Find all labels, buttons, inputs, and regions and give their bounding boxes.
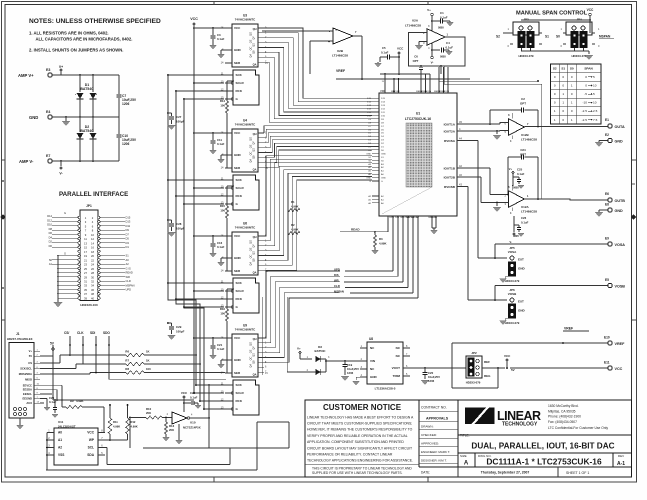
net D/S (334, 216, 398, 277)
svg-text:0.1uF: 0.1uF (440, 16, 448, 20)
svg-text:39: 39 (84, 296, 87, 300)
shift register U6 74VHC595MTC (221, 222, 269, 314)
svg-text:APPLICATION. COMPONENT SUBSTIT: APPLICATION. COMPONENT SUBSTITUTION AND … (307, 440, 404, 444)
eeprom U11 24LC025-I/ST (47, 420, 105, 465)
date row (421, 467, 589, 477)
svg-text:E1: E1 (605, 118, 609, 122)
svg-text:TECHNOLOGY APPLICATIONS ENGINE: TECHNOLOGY APPLICATIONS ENGINEERING FOR … (307, 459, 413, 463)
VCC supply top (190, 17, 198, 28)
svg-text:VIN: VIN (370, 359, 375, 363)
svg-text:LTC2753CUK-16: LTC2753CUK-16 (405, 117, 431, 121)
svg-text:OUTB: OUTB (615, 199, 626, 203)
svg-text:A0: A0 (58, 431, 62, 435)
svg-text:EEVCC: EEVCC (23, 383, 32, 387)
svg-text:C25: C25 (517, 168, 523, 172)
svg-text:JP1: JP1 (86, 204, 92, 208)
svg-text:0.1uF: 0.1uF (217, 245, 225, 249)
svg-text:C24: C24 (520, 148, 526, 152)
svg-text:13: 13 (84, 241, 87, 245)
svg-text:29: 29 (84, 275, 87, 279)
svg-text:CONTRACT NO.: CONTRACT NO. (421, 406, 447, 410)
net MSPAN (334, 216, 413, 294)
svg-text:0: 0 (562, 75, 564, 79)
capacitor C10 (116, 117, 137, 161)
svg-text:E5: E5 (605, 278, 609, 282)
op-amp U12B LT1469CS8 (505, 113, 538, 143)
svg-text:V-: V- (510, 240, 513, 244)
svg-text:SER: SER (234, 269, 241, 273)
svg-text:0.1uF: 0.1uF (517, 172, 525, 176)
svg-text:33: 33 (84, 284, 87, 288)
wire RCK bus (176, 91, 226, 401)
svg-text:20K: 20K (169, 428, 174, 432)
svg-text:1206: 1206 (347, 371, 354, 375)
svg-text:11: 11 (84, 237, 87, 241)
svg-text:GND: GND (370, 375, 378, 379)
resistor R9 4.99K (61, 399, 104, 433)
svg-text:1. ALL RESISTORS ARE IN OHMS,: 1. ALL RESISTORS ARE IN OHMS, 0402. (29, 31, 109, 36)
svg-text:AMP V+: AMP V+ (18, 73, 34, 78)
svg-text:0.1uF: 0.1uF (521, 221, 529, 225)
svg-text:Milpitas, CA 95035: Milpitas, CA 95035 (548, 409, 576, 413)
svg-text:QB: QB (253, 360, 256, 364)
svg-text:D3: D3 (126, 241, 130, 245)
svg-text:32: 32 (91, 280, 94, 284)
op-amp U2B LT1469CS8 (262, 28, 362, 74)
resistor R7 1K (125, 359, 200, 366)
svg-text:C6: C6 (414, 55, 418, 59)
svg-text:1: 1 (571, 118, 573, 122)
svg-text:VCC: VCC (397, 47, 404, 51)
capacitor C16 0.1uF (194, 235, 225, 257)
svg-text:D10: D10 (47, 223, 52, 227)
svg-text:VERIFY PROPER AND RELIABLE OPE: VERIFY PROPER AND RELIABLE OPERATION IN … (307, 434, 408, 438)
svg-text:D14: D14 (47, 214, 52, 218)
svg-text:VOSA: VOSA (508, 250, 517, 254)
svg-text:VREF: VREF (615, 342, 626, 346)
svg-text:R8: R8 (125, 367, 129, 371)
svg-text:EESDA: EESDA (23, 388, 32, 392)
voltage reference U8 LT1236ACS8-5 (360, 337, 410, 391)
svg-text:0.1uF: 0.1uF (217, 37, 225, 41)
svg-text:19: 19 (84, 254, 87, 258)
svg-text:V+: V+ (29, 349, 33, 353)
capacitor C26 0.1uF (510, 216, 529, 244)
svg-text:4.99K: 4.99K (379, 242, 386, 246)
svg-text:GND: GND (615, 209, 624, 213)
svg-text:0.1uF: 0.1uF (381, 51, 389, 55)
svg-text:VCC: VCC (181, 391, 188, 395)
capacitor C22 0.1uF (184, 391, 201, 409)
svg-text:S2: S2 (553, 66, 557, 70)
wire (340, 216, 418, 298)
svg-text:QA: QA (250, 54, 253, 58)
svg-text:D2: D2 (49, 240, 53, 244)
svg-text:1206: 1206 (122, 102, 130, 106)
svg-text:UPD: UPD (334, 268, 340, 272)
terminal E7 AMP V- (19, 139, 119, 164)
svg-text:QC: QC (250, 151, 253, 155)
svg-text:100: 100 (220, 209, 225, 213)
svg-text:READ: READ (351, 228, 360, 232)
svg-text:SCLR: SCLR (236, 81, 245, 85)
svg-text:VCC: VCC (615, 367, 623, 371)
capacitor C3 0.1uF (194, 27, 225, 49)
svg-text:D1: D1 (126, 245, 130, 249)
V+ supply symbol (297, 347, 312, 360)
svg-text:0: 0 (554, 92, 556, 96)
wire RCK stub (175, 90, 225, 92)
svg-text:0805: 0805 (438, 26, 444, 30)
svg-text:A2: A2 (58, 446, 62, 450)
svg-text:SIZE: SIZE (460, 454, 467, 458)
svg-text:A-1: A-1 (617, 461, 625, 467)
svg-text:SCK: SCK (236, 178, 243, 182)
svg-text:VCC: VCC (190, 17, 198, 21)
svg-text:QF: QF (253, 346, 256, 350)
svg-text:A: A (464, 461, 469, 467)
ground (415, 42, 423, 50)
shift register U3 74VHC595MTC (221, 14, 269, 106)
svg-text:C26: C26 (521, 216, 527, 220)
svg-text:HOWEVER, IT REMAINS THE CUSTOM: HOWEVER, IT REMAINS THE CUSTOMER'S RESPO… (307, 428, 413, 432)
svg-text:QG: QG (250, 342, 253, 346)
svg-text:D/S: D/S (334, 273, 339, 277)
resistor R2 4.99K (288, 223, 300, 235)
svg-text:0.1uF: 0.1uF (190, 396, 198, 400)
svg-text:22: 22 (91, 258, 94, 262)
svg-text:4.99K: 4.99K (131, 425, 138, 429)
svg-text:D8: D8 (49, 227, 53, 231)
size dwg rev row (460, 454, 625, 467)
svg-text:GND: GND (234, 153, 242, 157)
jumper JP5 VOSA HD1X3-079 (499, 246, 525, 283)
svg-text:QB: QB (253, 258, 256, 262)
svg-text:OPT: OPT (520, 102, 526, 106)
capacitor C1 0.1uF (432, 11, 454, 30)
V- supply symbol (59, 161, 62, 176)
svg-text:0.1uF: 0.1uF (217, 142, 225, 146)
svg-text:0: 0 (562, 118, 564, 122)
svg-text:QG: QG (250, 240, 253, 244)
ground (493, 135, 501, 140)
svg-text:38: 38 (91, 292, 94, 296)
svg-text:QA: QA (250, 159, 253, 163)
svg-text:VCC: VCC (234, 336, 241, 340)
svg-text:QC: QC (250, 46, 253, 50)
svg-text:4.99K: 4.99K (291, 227, 298, 231)
svg-text:S0: S0 (570, 66, 574, 70)
terminal E11 VCC (510, 361, 623, 372)
wire staircase nets (46, 418, 289, 471)
svg-text:SER: SER (234, 61, 241, 65)
wire U11 ground pins (46, 433, 48, 471)
wire G bus (184, 99, 226, 409)
resistor R12 4.99K (110, 404, 138, 440)
svg-text:VOSA: VOSA (615, 243, 626, 247)
svg-text:1630 McCarthy Blvd.: 1630 McCarthy Blvd. (548, 404, 579, 408)
svg-text:U12A: U12A (521, 205, 530, 209)
svg-text:0805: 0805 (513, 186, 519, 190)
svg-text:NC7SZ14P5X: NC7SZ14P5X (183, 426, 201, 430)
svg-text:0.1uF: 0.1uF (217, 347, 225, 351)
svg-text:MSPAN: MSPAN (126, 283, 135, 287)
svg-text:100: 100 (146, 367, 151, 371)
svg-text:WP: WP (89, 438, 95, 442)
svg-text:QG: QG (250, 32, 253, 36)
svg-text:DESIGNER: KIM T.: DESIGNER: KIM T. (421, 458, 447, 462)
svg-text:E6: E6 (605, 192, 609, 196)
svg-text:0: 0 (562, 109, 564, 113)
capacitor C11 0.1uF (194, 132, 225, 154)
svg-text:*: * (96, 93, 97, 97)
wire data bus U3 to U1 (264, 28, 372, 122)
svg-text:QH: QH (253, 235, 257, 239)
svg-text:74VHC595MTC: 74VHC595MTC (235, 18, 256, 22)
svg-text:1: 1 (571, 101, 573, 105)
svg-text:0: 0 (585, 75, 587, 79)
wire SCK bus (168, 75, 226, 385)
svg-text:0: 0 (571, 75, 573, 79)
title block frame (305, 400, 632, 477)
svg-text:D0: D0 (49, 244, 53, 248)
svg-text:GND: GND (381, 178, 386, 180)
svg-text:10: 10 (593, 84, 597, 88)
svg-text:QF: QF (253, 36, 256, 40)
svg-text:25: 25 (84, 267, 87, 271)
svg-text:D/S: D/S (395, 217, 399, 219)
svg-text:QB: QB (253, 155, 256, 159)
terminal E10 VREF (604, 336, 625, 347)
svg-text:E10: E10 (604, 336, 610, 340)
svg-text:SDI: SDI (90, 331, 95, 335)
svg-text:TRIM: TRIM (393, 374, 401, 378)
svg-text:RVOSA: RVOSA (444, 139, 456, 143)
ground (175, 424, 182, 444)
svg-text:U11: U11 (58, 420, 64, 424)
wire SCLR stub (193, 187, 224, 189)
feedback wire U2A (409, 33, 466, 67)
VCC net at U10 (181, 391, 188, 412)
capacitor C5 0.1uF (374, 46, 399, 67)
op-amp U2A LT1469CS8 (405, 19, 465, 46)
capacitor C27 100pF (167, 112, 184, 129)
svg-text:GND: GND (29, 115, 38, 120)
svg-text:QA: QA (253, 271, 257, 275)
svg-text:E11: E11 (604, 361, 610, 365)
svg-text:74VHC595MTC: 74VHC595MTC (235, 226, 256, 230)
svg-text:S0: S0 (556, 35, 560, 39)
svg-text:21: 21 (84, 258, 87, 262)
svg-text:E3: E3 (46, 68, 50, 72)
svg-text:D7: D7 (126, 232, 130, 236)
svg-text:RVOSB: RVOSB (444, 185, 456, 189)
wire pullup rail (53, 345, 194, 400)
svg-text:G /S: G /S (126, 266, 131, 270)
svg-text:REF: REF (484, 360, 490, 364)
wire bus riser (261, 297, 263, 375)
wire (208, 384, 210, 418)
svg-text:SCLR: SCLR (236, 391, 245, 395)
svg-text:RFCB: RFCB (443, 91, 449, 93)
svg-text:C29: C29 (176, 325, 182, 329)
svg-text:QD: QD (253, 251, 256, 255)
svg-text:1K: 1K (146, 350, 150, 354)
svg-text:QD: QD (253, 43, 256, 47)
svg-text:U8: U8 (369, 337, 373, 341)
capacitor C24 OPT (508, 148, 538, 199)
svg-text:0: 0 (571, 92, 573, 96)
wire data bus U4 to U1 (264, 126, 372, 167)
svg-text:A1: A1 (49, 262, 53, 266)
U1 right pins IOUT1A IOUT2A RVOSA IOUT1B IOUT2B RVOSB (444, 120, 464, 189)
svg-text:PARALLEL INTERFACE: PARALLEL INTERFACE (59, 191, 128, 198)
svg-text:34: 34 (91, 284, 94, 288)
svg-text:CIRCUIT BOARD LAYOUT MAY SIGNI: CIRCUIT BOARD LAYOUT MAY SIGNIFICANTLY A… (307, 446, 413, 450)
svg-text:QA: QA (253, 63, 257, 67)
svg-text:V+: V+ (297, 347, 301, 351)
svg-text:SER: SER (234, 166, 241, 170)
DAC U1 LTC2753CUK-16 (366, 93, 457, 216)
connector J1 HD2X7-079-MOLEX (7, 332, 40, 429)
svg-text:VOSB: VOSB (615, 285, 626, 289)
svg-text:SER: SER (234, 371, 241, 375)
svg-text:100pF: 100pF (176, 120, 185, 124)
svg-text:U2B: U2B (337, 49, 344, 53)
op-amp U12A LT1469CS8 (505, 185, 538, 215)
svg-text:CUSTOMER NOTICE: CUSTOMER NOTICE (323, 403, 402, 412)
net VREF to E10 (452, 327, 608, 389)
svg-text:1206: 1206 (122, 142, 130, 146)
svg-text:CLK: CLK (77, 331, 84, 335)
svg-text:GND: GND (366, 153, 371, 155)
svg-text:5V: 5V (29, 354, 32, 358)
net UPD (334, 216, 393, 272)
svg-text:LDAC: LDAC (413, 216, 419, 219)
svg-text:5V: 5V (511, 368, 515, 372)
svg-text:26: 26 (91, 267, 94, 271)
svg-text:TITLE:: TITLE: (460, 434, 470, 438)
svg-text:WR: WR (334, 279, 339, 283)
svg-text:JP3: JP3 (523, 18, 529, 22)
svg-text:C2: C2 (521, 97, 525, 101)
svg-text:QA: QA (253, 373, 257, 377)
capacitor C4 0.1uF (432, 41, 453, 59)
svg-text:QE: QE (250, 349, 253, 353)
svg-text:20: 20 (91, 254, 94, 258)
svg-text:VOUT: VOUT (392, 366, 401, 370)
svg-text:HD2X3-079: HD2X3-079 (518, 54, 533, 58)
wire G stub (183, 98, 224, 100)
svg-text:QA: QA (250, 262, 253, 266)
capacitor C25 0.1uF (509, 167, 525, 190)
svg-text:CLR: CLR (126, 279, 131, 283)
capacitor C28 100pF (167, 219, 184, 236)
svg-text:BAT54C: BAT54C (80, 87, 94, 91)
ground (341, 372, 349, 381)
manual span control heading (516, 11, 588, 17)
svg-text:D4: D4 (49, 235, 53, 239)
svg-text:MSPAN: MSPAN (334, 290, 344, 294)
svg-text:BAT54C: BAT54C (314, 349, 326, 353)
svg-text:LT1469CS8: LT1469CS8 (521, 210, 537, 214)
svg-text:IOUT1A: IOUT1A (444, 122, 456, 126)
svg-text:U10: U10 (190, 421, 196, 425)
svg-text:12: 12 (91, 237, 94, 241)
parallel interface heading (59, 191, 128, 198)
svg-text:EESCL: EESCL (23, 392, 32, 396)
svg-text:APPROVED:: APPROVED: (421, 442, 439, 446)
svg-text:IOUT1B: IOUT1B (444, 166, 456, 170)
svg-text:U2A: U2A (412, 19, 419, 23)
wire RCK stub (199, 400, 225, 402)
svg-text:S1: S1 (545, 35, 549, 39)
net CS/ (64, 331, 71, 355)
diode D1 BAT54C (75, 75, 97, 117)
inverter U10 NC7SZ14P5X (167, 412, 210, 430)
svg-text:74VHC595MTC: 74VHC595MTC (235, 123, 256, 127)
svg-text:V+: V+ (427, 8, 431, 12)
diode D2 BAT54C (77, 117, 97, 139)
ground (430, 230, 437, 234)
svg-text:R7: R7 (125, 359, 129, 363)
svg-text:TECHNOLOGY: TECHNOLOGY (502, 422, 538, 428)
svg-text:RCK: RCK (236, 89, 243, 93)
svg-text:ALL CAPACITORS ARE IN MICROFAR: ALL CAPACITORS ARE IN MICROFARADS, 0402. (36, 37, 133, 42)
ground (217, 360, 225, 368)
svg-text:D15: D15 (126, 216, 131, 220)
resistor R16 100 (220, 289, 234, 373)
terminal E9 VOSA (494, 237, 625, 259)
svg-text:QB: QB (253, 50, 256, 54)
address text (548, 404, 608, 430)
wire IOUT1B to U12A (464, 168, 509, 195)
terminal E8 GND (595, 203, 623, 217)
svg-text:VCC: VCC (87, 431, 94, 435)
resistor R6 1K (125, 350, 196, 357)
svg-text:G: G (64, 211, 66, 215)
resistor R13 20K (162, 418, 174, 442)
svg-text:LTC Confidential-For Customer: LTC Confidential-For Customer Use Only (548, 426, 608, 430)
ground (217, 258, 225, 266)
svg-text:OUTA: OUTA (615, 125, 626, 129)
svg-text:D6: D6 (49, 231, 53, 235)
svg-text:D11: D11 (126, 224, 131, 228)
svg-text:31: 31 (84, 280, 87, 284)
ground (493, 203, 501, 212)
wire REFB feed (440, 66, 442, 74)
terminal E5 VOSB (494, 278, 625, 301)
svg-text:QH: QH (253, 337, 257, 341)
svg-text:0: 0 (554, 84, 556, 88)
Linear Technology logo (465, 408, 541, 428)
svg-text:G: G (64, 252, 66, 256)
jumper JP2 HD2X3-079 (466, 351, 491, 385)
svg-text:QE: QE (250, 144, 253, 148)
svg-text:MSPAN: MSPAN (599, 35, 611, 39)
svg-text:HD1X3-079: HD1X3-079 (505, 321, 520, 325)
ground (217, 155, 225, 163)
svg-text:QG: QG (250, 137, 253, 141)
svg-text:LT1469CS8: LT1469CS8 (332, 54, 348, 58)
svg-text:74VHC595MTC: 74VHC595MTC (235, 328, 256, 332)
wire SCK stub (167, 74, 225, 76)
svg-text:VREF: VREF (336, 69, 345, 73)
svg-text:QC: QC (250, 356, 253, 360)
svg-text:LT1236ACS8-5: LT1236ACS8-5 (375, 387, 396, 391)
svg-text:14: 14 (91, 241, 94, 245)
ground (352, 377, 360, 385)
